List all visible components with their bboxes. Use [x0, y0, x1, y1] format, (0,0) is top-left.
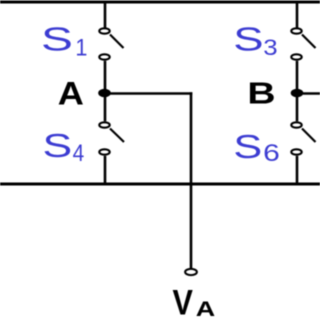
label VA [173, 283, 216, 320]
svg-text:S: S [43, 128, 73, 164]
wire bottom bus [0, 183, 320, 186]
svg-text:6: 6 [263, 139, 280, 167]
wire S4 to bottom bus [104, 156, 107, 184]
svg-text:A: A [58, 76, 84, 112]
wire S1 to node A [104, 61, 107, 122]
svg-text:4: 4 [73, 138, 85, 166]
wire top bus [0, 1, 320, 4]
svg-text:S: S [233, 21, 263, 58]
wire node A to VA corner [110, 92, 192, 95]
switch S6 [291, 122, 315, 154]
svg-text:A: A [196, 297, 215, 320]
terminal VA [185, 269, 197, 275]
svg-text:1: 1 [75, 34, 87, 61]
svg-text:3: 3 [263, 36, 277, 61]
label S3 [233, 21, 277, 60]
wire VA drop [190, 92, 193, 268]
label S1 [41, 21, 87, 61]
label S4 [43, 128, 85, 166]
svg-text:B: B [247, 76, 275, 110]
wire S3 to node B [296, 61, 299, 122]
svg-text:S: S [41, 21, 73, 58]
svg-text:V: V [173, 283, 193, 320]
node B [291, 89, 304, 98]
wire top bus to S3 [296, 2, 299, 28]
switch S3 [291, 28, 315, 59]
svg-text:S: S [233, 129, 262, 166]
switch S1 [99, 28, 123, 59]
wire S6 to bottom bus [296, 156, 299, 184]
node A [98, 89, 111, 98]
wire node B stub [303, 92, 320, 95]
label S6 [233, 129, 279, 167]
wire top bus to S1 [104, 2, 107, 28]
switch S4 [99, 122, 124, 154]
